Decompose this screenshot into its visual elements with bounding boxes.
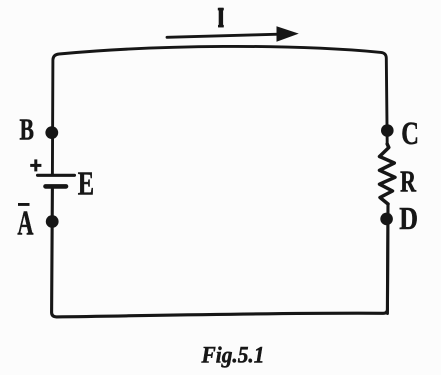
svg-text:R: R	[400, 164, 416, 199]
svg-text:A: A	[17, 205, 33, 243]
svg-text:E: E	[78, 166, 94, 203]
svg-text:D: D	[399, 201, 418, 236]
svg-text:C: C	[401, 116, 419, 152]
svg-text:Fig.5.1: Fig.5.1	[201, 342, 265, 368]
svg-text:B: B	[20, 112, 35, 147]
